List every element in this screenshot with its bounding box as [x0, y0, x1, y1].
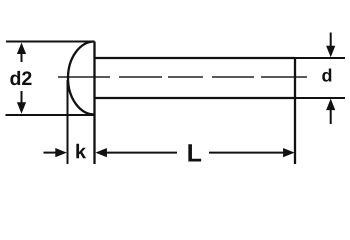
L dimension arrow right: [209, 148, 295, 157]
d2 label: [10, 71, 20, 85]
centerline (dashed axis): [58, 76, 307, 78]
shank top line: [95, 57, 296, 59]
L dimension arrow left: [95, 148, 177, 157]
shank end face + L extension line: [294, 58, 296, 164]
head flat face + k extension line: [93, 42, 95, 165]
d dimension arrow down (top): [326, 33, 335, 58]
d2 bottom extension line: [6, 114, 95, 116]
d dimension arrow up (bottom): [326, 99, 335, 124]
k label: [76, 144, 86, 158]
k left extension line: [67, 80, 69, 164]
d top extension line: [295, 57, 345, 59]
head dome arc: [68, 42, 94, 115]
k dimension arrow (points right at head apex line): [44, 148, 67, 157]
d2 top extension line: [6, 41, 95, 43]
d label: [322, 68, 331, 81]
L label: [188, 144, 201, 161]
d2 dimension arrow up: [17, 43, 26, 63]
d bottom extension line: [295, 97, 345, 99]
shank bottom line: [95, 97, 296, 99]
d2 dimension arrow down: [17, 91, 26, 114]
